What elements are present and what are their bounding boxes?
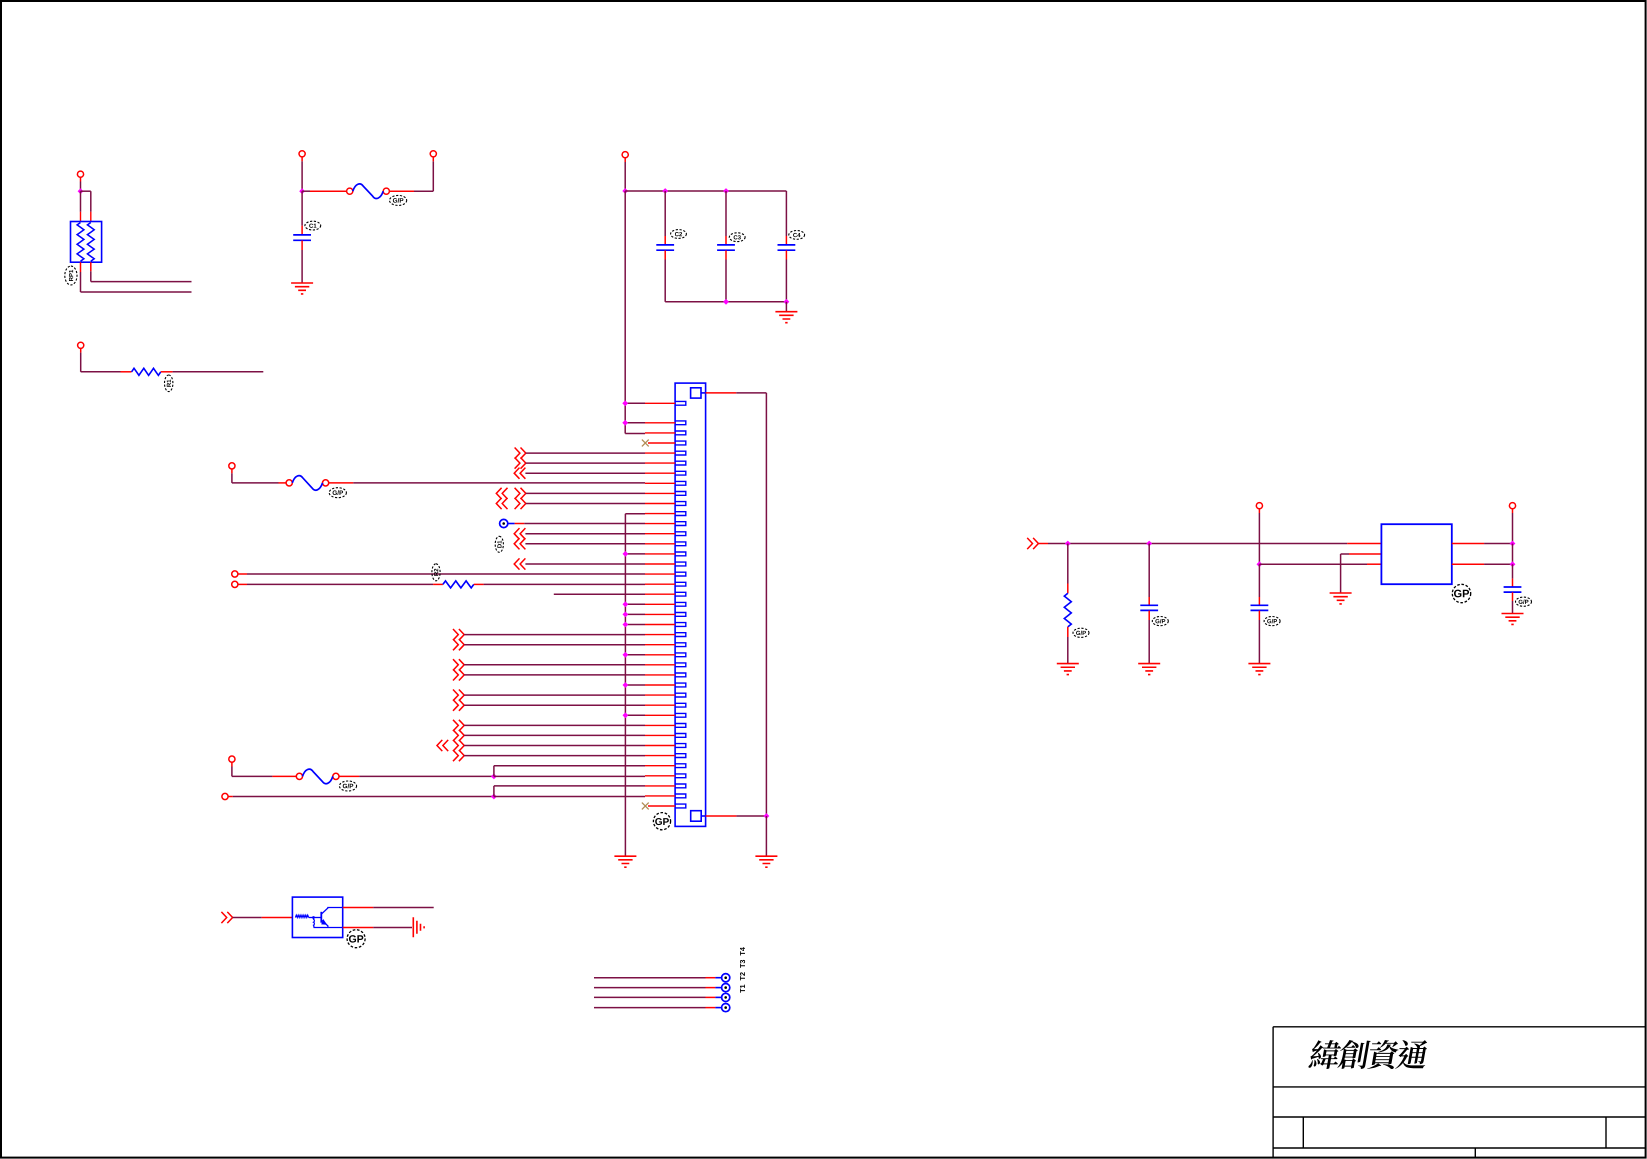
output port arrow pin13: [514, 528, 525, 539]
input port arrow: [221, 912, 232, 923]
wire: [80, 348, 82, 352]
capacitor C1: [293, 235, 311, 240]
wire pin15: [625, 553, 645, 555]
label C3: [729, 233, 745, 242]
output port arrow pin7: [514, 468, 525, 479]
wire pin19: [554, 593, 645, 595]
input port arrow pin27: [453, 669, 464, 680]
wire test point 1: [594, 977, 706, 979]
wire pin31: [625, 714, 645, 716]
label G/P L3: [339, 781, 356, 791]
wire pin35: [464, 755, 645, 757]
wire pin16: [525, 563, 645, 565]
label GP connector CN1: [653, 813, 670, 830]
wire pin22: [625, 624, 645, 626]
wire: [301, 157, 303, 161]
wire pin9: [526, 492, 645, 494]
wire pin2: [625, 422, 645, 424]
wire gnd pin: [1341, 553, 1349, 555]
input port arrow pin32: [453, 720, 464, 731]
label C2: [671, 230, 687, 239]
capacitor C2: [656, 245, 674, 250]
label G/P C8: [1516, 597, 1532, 606]
no-connect pin40: [642, 803, 649, 810]
input port arrow pin24: [453, 639, 464, 650]
ground: [755, 856, 777, 867]
wire: [80, 177, 82, 181]
wire: [1452, 563, 1484, 565]
node junction: [784, 299, 790, 305]
wire pin25: [625, 654, 645, 656]
wire pin27: [464, 674, 645, 676]
ground: [1502, 614, 1524, 625]
wire pin33: [464, 734, 645, 736]
port arrows pin9: [496, 488, 507, 499]
wire: [339, 775, 359, 777]
node junction: [623, 622, 629, 628]
wire: [664, 191, 666, 236]
ground: [1248, 664, 1270, 675]
capacitor C8: [1512, 564, 1514, 578]
no-connect pin4: [642, 440, 649, 447]
wire pin3: [625, 433, 645, 435]
wire: [706, 392, 737, 394]
wire pin20: [625, 603, 645, 605]
title block: [1273, 1027, 1646, 1158]
resistor R1: [132, 368, 161, 375]
wire: [785, 250, 787, 259]
wire pin23: [464, 634, 645, 636]
wire pin13: [525, 533, 645, 535]
input port arrow pin35: [453, 750, 464, 761]
input port arrow pin30: [453, 700, 464, 711]
wire: [301, 191, 303, 226]
ferrite bead L2: [286, 480, 292, 486]
wire vertical bus 2: [624, 514, 626, 856]
ground: [775, 312, 797, 323]
label C1: [305, 221, 321, 230]
power terminal J2: [299, 151, 305, 157]
wire pin7: [525, 472, 645, 474]
ferrite bead L1: [347, 188, 353, 194]
label GP Q1: [347, 930, 365, 948]
label net pin13/14: [495, 536, 503, 552]
power terminal J4: [622, 152, 628, 158]
port arrows pin34: [437, 740, 448, 751]
power terminal J1: [77, 171, 83, 177]
node junction: [1257, 561, 1263, 567]
power terminal J11: [1256, 503, 1262, 509]
wire: [389, 190, 414, 192]
node junction: [299, 188, 305, 194]
wire: [343, 907, 374, 909]
wire pin39: [494, 796, 645, 798]
power terminal J9: [229, 756, 235, 762]
ground: [1057, 664, 1079, 675]
wire: [301, 241, 303, 251]
capacitor C3: [717, 245, 735, 250]
wire: [725, 191, 727, 236]
node junction: [662, 188, 668, 194]
input port arrow pin26: [453, 659, 464, 670]
output port arrow pin14: [514, 538, 525, 549]
node junction: [764, 813, 770, 819]
node junction: [78, 188, 84, 194]
optocoupler transistor Q1: [292, 897, 342, 937]
node junction: [723, 299, 729, 305]
test point TP2: [722, 974, 730, 982]
regulator U1: [1381, 524, 1451, 584]
wire pin21: [625, 613, 645, 615]
wire: [231, 469, 233, 473]
test point TP3: [722, 984, 730, 992]
node junction: [623, 551, 629, 557]
ground: [1138, 664, 1160, 675]
label R2: [432, 564, 440, 581]
wire pin14: [525, 543, 645, 545]
wire pin24: [464, 644, 645, 646]
connector CN1 body: [675, 383, 706, 826]
wire pin30: [464, 704, 645, 706]
resistor pack RP1: [71, 222, 102, 263]
power terminal J5: [78, 342, 84, 348]
connector CN1 mounting pin top: [691, 388, 701, 398]
capacitor C7: [1258, 564, 1260, 597]
wire: [81, 190, 91, 192]
wire bus bottom: [665, 301, 786, 303]
wire: [1512, 509, 1514, 513]
input port arrow: [1027, 538, 1038, 549]
wire: [228, 796, 233, 798]
input port arrow pin29: [453, 690, 464, 701]
connector CN1 mounting pin bottom: [691, 811, 702, 822]
label R1: [164, 375, 172, 392]
node junction: [1065, 541, 1071, 547]
power terminal J12: [1509, 503, 1515, 509]
output port arrow pin16: [514, 558, 525, 569]
resistor R3: [1067, 544, 1069, 584]
node junction: [1510, 541, 1516, 547]
capacitor C4: [778, 245, 796, 250]
power terminal J8: [232, 581, 238, 587]
input port arrow pin23: [453, 629, 464, 640]
node junction: [491, 794, 497, 800]
wire main: [1038, 543, 1048, 545]
ground: [413, 917, 424, 937]
power terminal J7: [232, 571, 238, 577]
node junction: [622, 420, 628, 426]
label G/P R3: [1073, 628, 1089, 637]
wire pin34: [464, 745, 645, 747]
wire pin32: [464, 724, 645, 726]
wire pin28: [625, 684, 645, 686]
input port arrow pin5: [515, 448, 526, 459]
wire test point 3: [594, 996, 706, 998]
wire pin1: [625, 402, 645, 404]
wire test point 4: [594, 1007, 706, 1009]
wire pin6: [526, 462, 645, 464]
node junction: [622, 400, 628, 406]
test point TP5: [722, 1004, 730, 1012]
wire: [231, 762, 233, 766]
wire: [238, 583, 247, 585]
title text company name: [1308, 1040, 1430, 1069]
wire pin29: [464, 694, 645, 696]
wire bus top: [625, 190, 786, 192]
ground: [614, 856, 636, 867]
node junction: [491, 774, 497, 780]
wire: [80, 262, 82, 272]
ground: [291, 283, 313, 294]
node junction: [623, 652, 629, 658]
wire: [785, 191, 787, 236]
wire pin37: [494, 775, 645, 777]
label G/P L1: [390, 195, 407, 205]
wire pin38: [493, 786, 495, 797]
power terminal J10: [222, 793, 228, 799]
label G/P L2: [329, 488, 346, 498]
label test points: [740, 947, 745, 993]
capacitor C6: [1148, 544, 1150, 598]
wire: [706, 815, 737, 817]
test point TP1 pin12: [500, 519, 508, 527]
wire B: [1259, 563, 1367, 565]
node junction: [623, 712, 629, 718]
wire: [343, 927, 374, 929]
wire pin10: [526, 503, 645, 505]
wire pin8: [329, 482, 354, 484]
label G/P C7: [1264, 617, 1280, 626]
node junction: [723, 188, 729, 194]
wire vertical bus to connector: [624, 191, 626, 434]
power terminal J3: [430, 151, 436, 157]
wire: [302, 190, 310, 192]
wire: [765, 816, 767, 856]
label C4: [789, 231, 805, 240]
ferrite bead L3: [296, 773, 302, 779]
wire pin18: [474, 583, 484, 585]
node junction: [623, 682, 629, 688]
ground: [1330, 593, 1352, 604]
node junction: [622, 188, 628, 194]
node junction: [623, 612, 629, 618]
resistor R2: [443, 581, 474, 588]
wire pin26: [464, 664, 645, 666]
wire: [161, 371, 173, 373]
label G/P C6: [1152, 617, 1168, 626]
input port arrow pin6: [515, 458, 526, 469]
wire: [1258, 509, 1260, 513]
port arrows pin10: [496, 498, 507, 509]
wire: [725, 250, 727, 259]
connector CN1 pin stub wires: [645, 403, 675, 806]
wire test point 2: [594, 987, 706, 989]
wire pin17: [238, 573, 247, 575]
input port arrow pin33: [453, 730, 464, 741]
label RP1: [65, 266, 77, 285]
wire pin12: [515, 523, 525, 525]
wire pin11: [625, 513, 645, 515]
wire: [233, 917, 262, 919]
wire: [664, 250, 666, 259]
node junction: [1146, 541, 1152, 547]
wire: [1452, 543, 1484, 545]
wire: [1512, 544, 1514, 565]
node junction: [1510, 561, 1516, 567]
connector CN1 pins 1-40: [675, 401, 686, 808]
node junction: [623, 601, 629, 607]
wire: [785, 302, 787, 312]
test point TP4: [722, 993, 730, 1001]
wire pin36: [493, 766, 495, 777]
wire: [624, 158, 626, 162]
power terminal J6: [229, 463, 235, 469]
wire pin5: [526, 452, 645, 454]
label GP U1: [1452, 584, 1470, 602]
